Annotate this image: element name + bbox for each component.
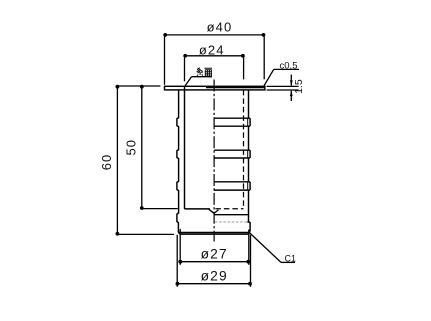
svg-text:ø27: ø27 — [201, 246, 228, 261]
svg-text:ø40: ø40 — [207, 19, 233, 34]
svg-text:ø29: ø29 — [201, 268, 228, 283]
svg-text:60: 60 — [99, 154, 114, 170]
svg-text:ø24: ø24 — [199, 43, 225, 58]
svg-text:50: 50 — [124, 139, 139, 155]
svg-text:C1: C1 — [285, 253, 297, 263]
svg-text:c0,5: c0,5 — [280, 60, 298, 71]
svg-text:1.5: 1.5 — [293, 79, 305, 94]
